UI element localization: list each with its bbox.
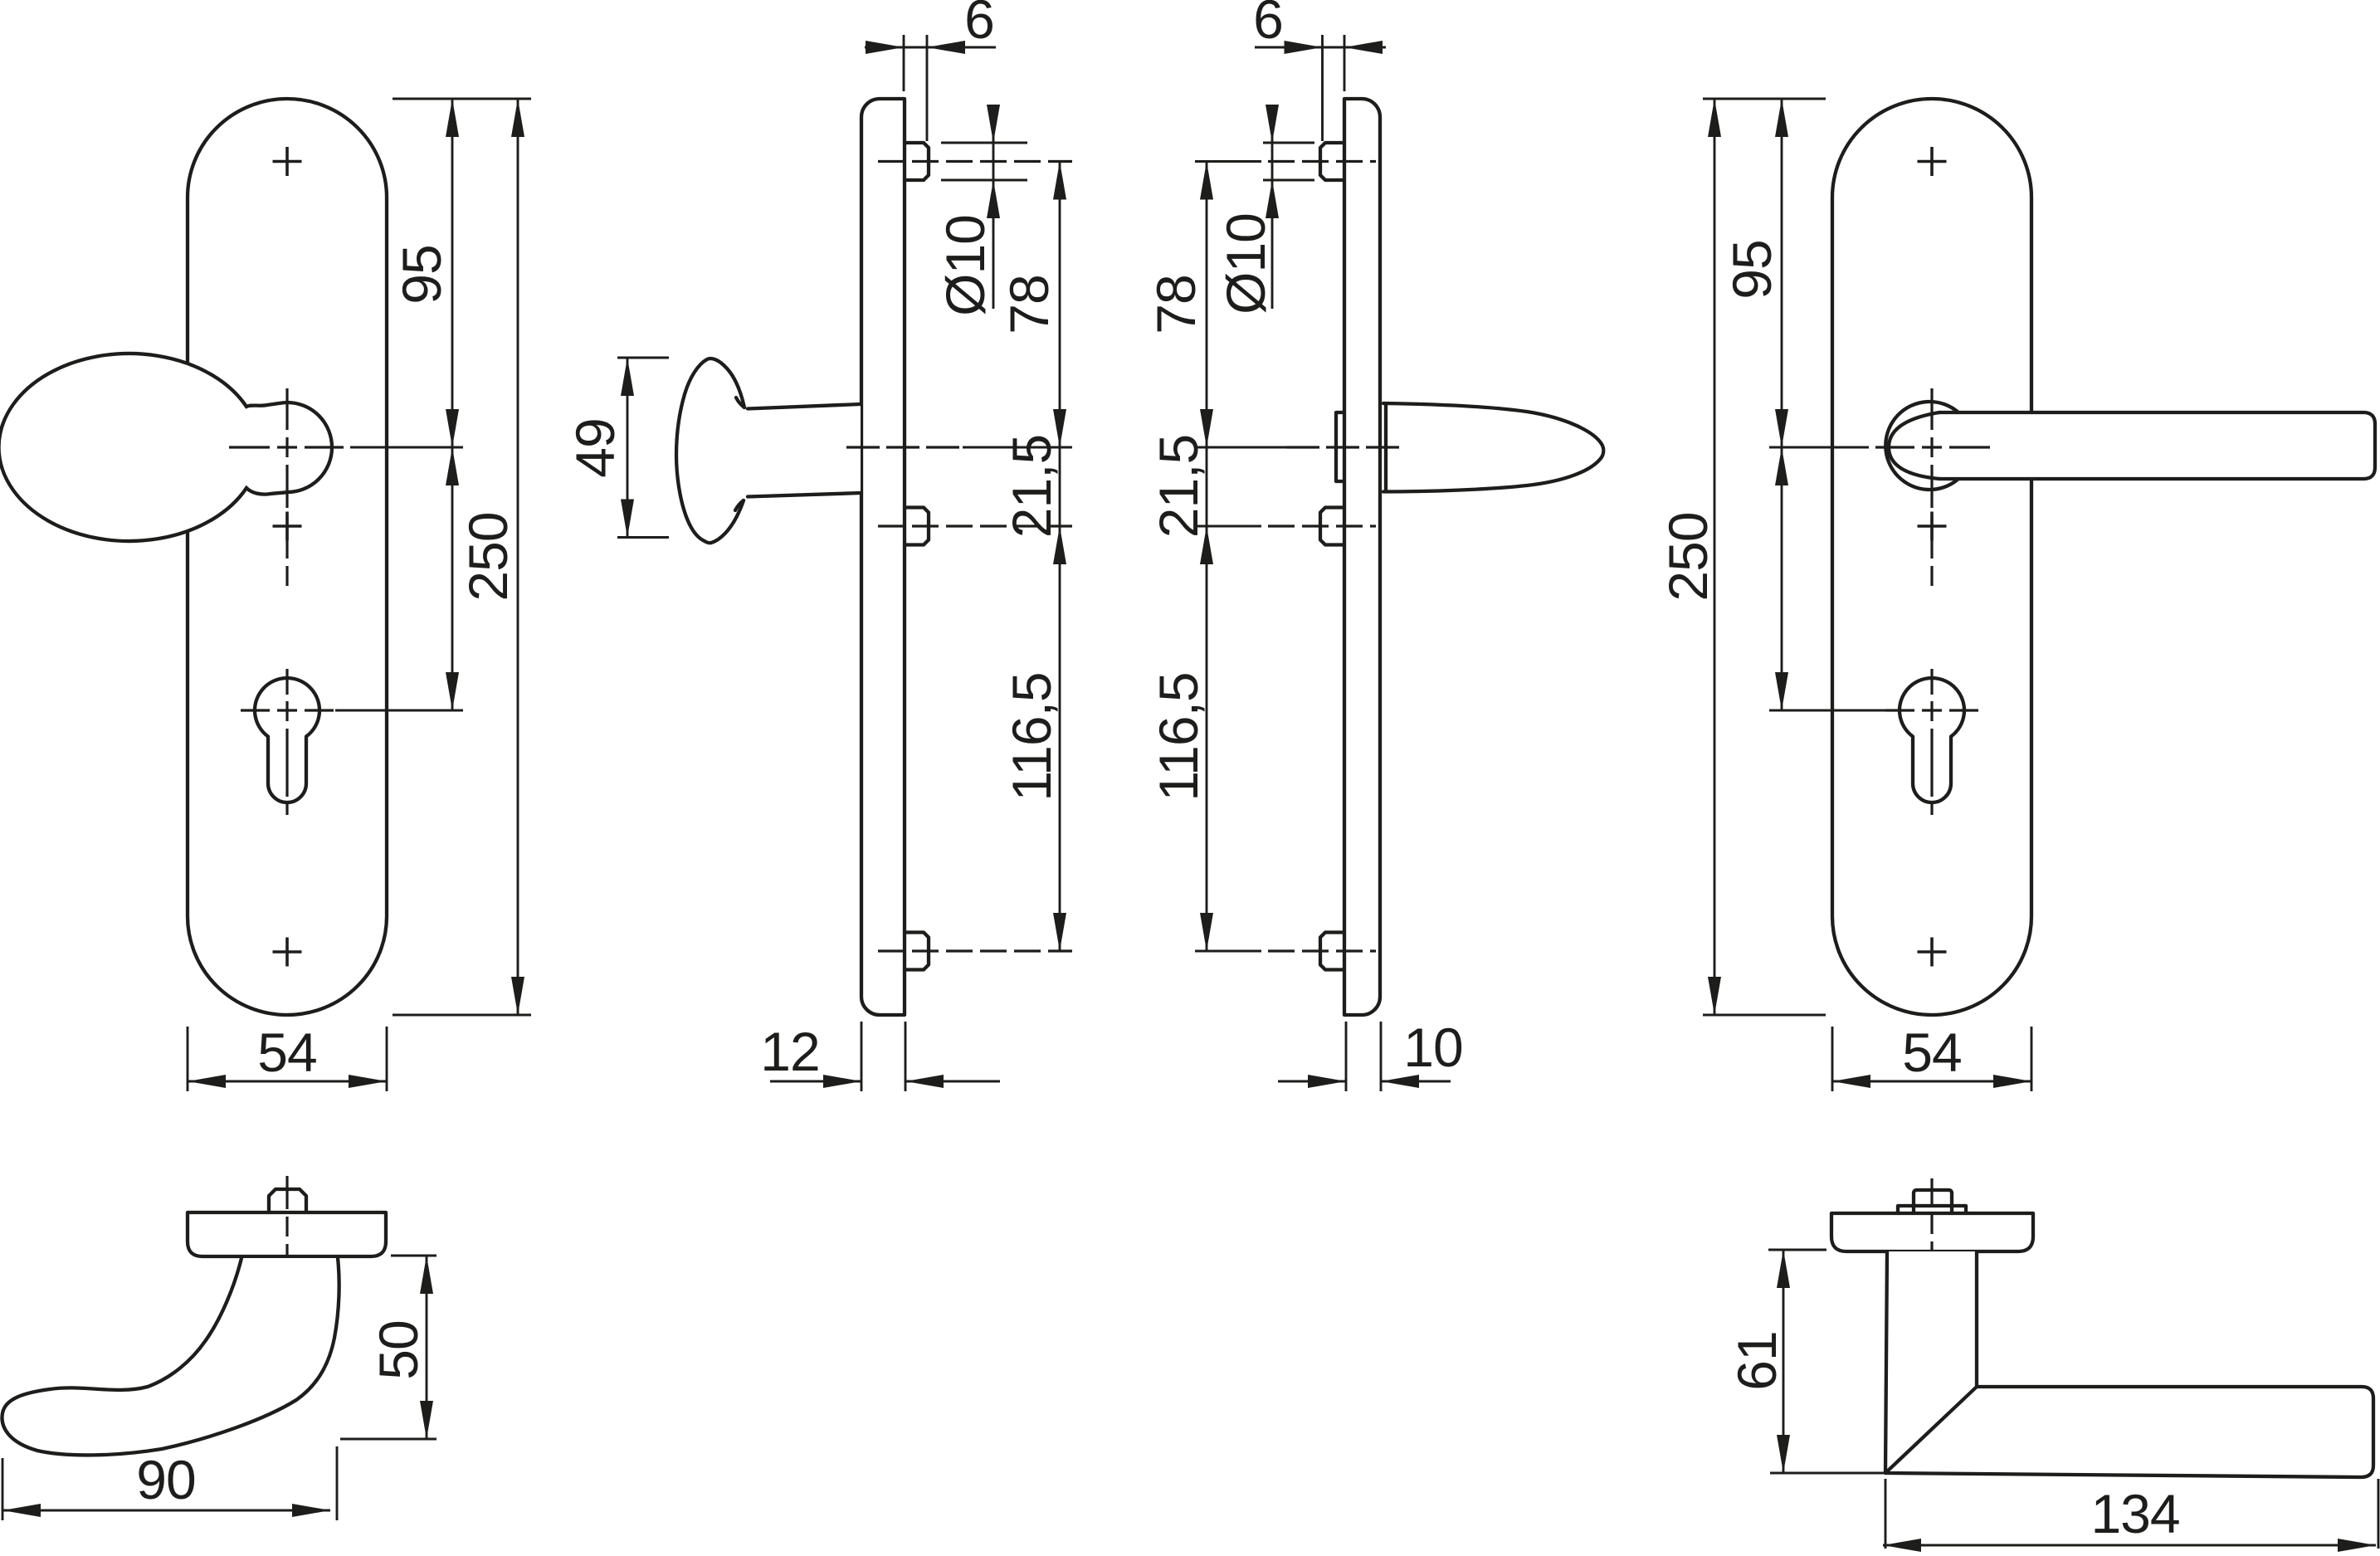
svg-text:6: 6 (1253, 0, 1283, 50)
dim 250 (left) (393, 99, 531, 1015)
svg-text:78: 78 (998, 275, 1060, 334)
svg-text:6: 6 (964, 0, 994, 50)
cylinder centerlines (right) (1885, 669, 1978, 815)
svg-text:250: 250 (457, 512, 519, 601)
dim 90 (2, 1446, 337, 1520)
svg-text:10: 10 (1403, 1017, 1462, 1078)
bolts on back of knob plate (905, 143, 929, 970)
dim 61 (1726, 1250, 1885, 1473)
cylinder centerlines (left) (241, 669, 334, 815)
svg-text:116,5: 116,5 (1001, 672, 1062, 801)
dim 95 (left) (391, 99, 531, 447)
dim diam10 (view3) (1215, 105, 1314, 315)
side view plate (12 mm, knob side) (861, 99, 905, 1015)
knob top view base plate (188, 1212, 386, 1256)
dim 49 (knob height, view2) (564, 358, 669, 538)
dim 116,5 (view2) (1001, 526, 1066, 951)
svg-text:49: 49 (564, 418, 626, 477)
cylinder keyhole (right plate) (1900, 678, 1964, 802)
svg-text:21,5: 21,5 (1148, 435, 1209, 538)
lever centerlines (1875, 388, 1990, 586)
bolt centerlines view2 (846, 162, 1072, 952)
dim 10 (view3) (1278, 1017, 1463, 1091)
dim 116,5 (view3) (1148, 526, 1213, 951)
lever top view nut (1898, 1190, 1966, 1213)
dim 21,5 (view2) (1001, 435, 1062, 538)
dim 250 (right) (1657, 99, 1826, 1015)
svg-text:54: 54 (1902, 1022, 1961, 1083)
screw crosses left plate (273, 147, 302, 967)
svg-text:50: 50 (368, 1320, 429, 1379)
svg-text:54: 54 (257, 1022, 316, 1083)
left fitting: knob backplate (front view) (188, 99, 387, 1015)
lever rosette circle (1885, 402, 1958, 490)
dim 12 (view2) (760, 1021, 1000, 1091)
svg-text:61: 61 (1726, 1331, 1787, 1390)
dim 6 (view3) (1253, 0, 1386, 141)
svg-text:134: 134 (2090, 1483, 2179, 1544)
bolts on back of lever plate (1320, 143, 1344, 970)
dim 54 (right) (1832, 1022, 2031, 1091)
dim 21,5 (view3) (1148, 435, 1209, 538)
dim 78 (view2) (998, 162, 1066, 448)
dim lever-to-cylinder segment (right) (1769, 447, 1885, 710)
dim knob-to-cylinder segment (left) (335, 447, 463, 710)
lever top view centerline (1930, 1178, 1933, 1270)
knob top view nut (269, 1189, 306, 1212)
knob side profile (676, 359, 861, 543)
svg-text:90: 90 (136, 1449, 195, 1510)
dim 54 (left) (188, 1022, 387, 1091)
dim diam10 (view2) (934, 105, 1027, 316)
cylinder keyhole (left plate) (255, 678, 319, 802)
dim 50 (340, 1256, 436, 1439)
svg-text:21,5: 21,5 (1001, 435, 1062, 538)
lever top view handle (L shape) (1885, 1251, 2373, 1477)
dim 6 (view2) (865, 0, 996, 141)
lever bar (front view) (1889, 412, 2375, 479)
svg-text:116,5: 116,5 (1148, 672, 1209, 801)
svg-text:Ø10: Ø10 (934, 215, 996, 316)
knob (front view): oval knob with round neck (0, 354, 332, 541)
bolt centerlines view3 (1194, 162, 1399, 952)
dim 95 (right) (1703, 99, 1826, 447)
dim 134 (1883, 1479, 2378, 1552)
svg-text:Ø10: Ø10 (1215, 213, 1276, 315)
knob top view body (2, 1258, 339, 1455)
lever top view base plate (1831, 1213, 2033, 1251)
screw crosses right plate (1918, 147, 1947, 967)
lever handle side profile (1383, 403, 1603, 492)
knob centerlines (229, 388, 344, 586)
svg-text:78: 78 (1145, 275, 1207, 334)
spindle block on back (view3) (1336, 412, 1344, 481)
svg-text:95: 95 (391, 245, 452, 304)
svg-text:12: 12 (760, 1021, 819, 1082)
dim 78 (view3) (1145, 162, 1213, 448)
knob top view centerline (285, 1176, 288, 1278)
side view plate (10 mm, lever side) (1344, 99, 1380, 1015)
right fitting: lever backplate (front view) (1832, 99, 2031, 1015)
svg-text:250: 250 (1657, 512, 1719, 601)
svg-text:95: 95 (1721, 240, 1783, 299)
